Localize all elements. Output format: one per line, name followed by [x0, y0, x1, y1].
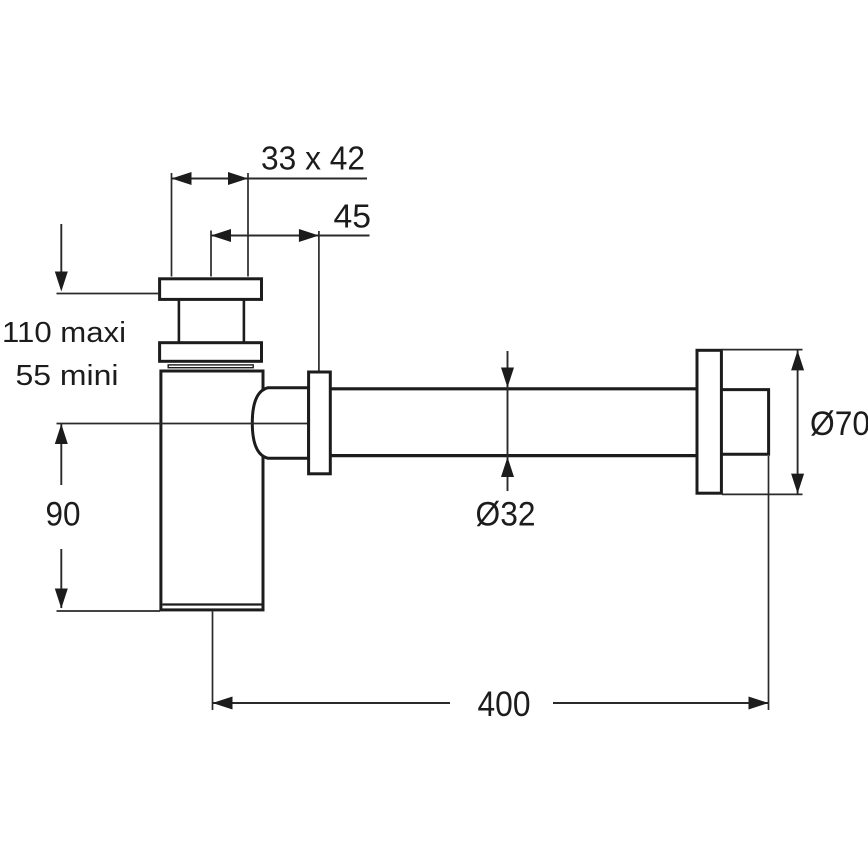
inlet top flange — [160, 279, 262, 300]
washer — [168, 365, 253, 368]
dim 400 extension line right — [768, 456, 770, 710]
dim 90 line upper segment — [60, 424, 62, 485]
svg-text:33 x 42: 33 x 42 — [261, 141, 365, 178]
svg-text:Ø32: Ø32 — [476, 496, 536, 534]
svg-text:Ø70: Ø70 — [810, 405, 868, 443]
dim diameter 70 extension top — [722, 349, 803, 351]
dim 90 arrow down — [55, 589, 68, 609]
dim 400 arrow right — [749, 697, 769, 710]
inlet neck pipe right line — [243, 300, 246, 344]
dim 45 extension line right — [318, 231, 320, 371]
inlet lock nut — [160, 343, 262, 362]
svg-text:400: 400 — [478, 685, 531, 724]
height pointer arrow down — [55, 272, 68, 292]
dim diameter 32 arrow up — [501, 457, 514, 477]
dim 33x42 line — [172, 178, 368, 180]
trap body cup — [161, 371, 263, 610]
dim 45 arrow right — [299, 229, 319, 242]
height pointer vertical line — [60, 224, 62, 273]
dim 400 line left segment — [213, 702, 451, 704]
outlet cap nut rounded — [252, 388, 308, 459]
dim diameter 32 vertical line — [507, 351, 509, 491]
dim 400 extension line left — [212, 612, 214, 711]
dim 90 bottom reference line — [57, 610, 161, 612]
svg-text:110 maxi: 110 maxi — [2, 317, 126, 349]
wall pipe stub — [722, 390, 769, 455]
dim 400 line right segment — [553, 702, 769, 704]
outlet pipe bottom line — [330, 454, 697, 457]
inlet neck pipe left line — [178, 300, 181, 344]
body bottom cap line — [162, 603, 261, 605]
dim diameter 70 arrow up — [791, 350, 804, 370]
dim 33x42 extension line right — [247, 173, 249, 277]
dim diameter 70 arrow down — [791, 474, 804, 494]
svg-text:45: 45 — [334, 199, 372, 236]
dim 33x42 arrow left — [172, 172, 192, 185]
dim 45 line — [211, 235, 370, 237]
height pointer horizontal line — [57, 293, 160, 295]
dim 45 arrow left — [211, 229, 231, 242]
dim 400 arrow left — [213, 697, 233, 710]
dim 90 line lower segment — [60, 549, 62, 608]
dim diameter 32 arrow down — [501, 368, 514, 388]
dim 33x42 extension line left — [171, 173, 173, 277]
dim 90 arrow up — [55, 424, 68, 444]
outlet pipe top line — [330, 387, 697, 390]
svg-text:55 mini: 55 mini — [16, 360, 119, 392]
dim 33x42 arrow right — [228, 172, 248, 185]
dim diameter 70 extension bottom — [722, 493, 803, 495]
svg-text:90: 90 — [46, 496, 81, 534]
dim diameter 70 line — [797, 350, 799, 493]
outlet compression nut — [309, 372, 331, 474]
wall flange — [697, 350, 721, 493]
dim 45 extension line left — [210, 231, 212, 277]
centerline 90 top reference — [57, 423, 309, 425]
